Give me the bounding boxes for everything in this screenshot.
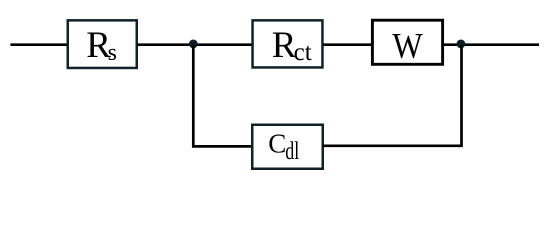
resistor Rs — [68, 20, 137, 68]
svg-text:W: W — [392, 26, 422, 66]
wire Cdl to node B — [323, 45, 462, 146]
wire Rct to W — [323, 43, 372, 46]
wire Rs to node A — [137, 43, 252, 46]
node A (left junction) — [189, 40, 198, 49]
resistor Rct — [253, 20, 323, 67]
wire left lead — [10, 43, 68, 46]
capacitor Cdl — [252, 125, 323, 169]
wire node A down to Cdl — [193, 45, 251, 146]
svg-text:C: C — [268, 129, 286, 159]
svg-text:s: s — [108, 40, 117, 66]
node B (right junction) — [457, 40, 466, 49]
svg-text:dl: dl — [285, 137, 299, 165]
Warburg element W — [372, 20, 442, 65]
wire W to node B — [443, 43, 540, 46]
svg-text:ct: ct — [294, 39, 312, 66]
